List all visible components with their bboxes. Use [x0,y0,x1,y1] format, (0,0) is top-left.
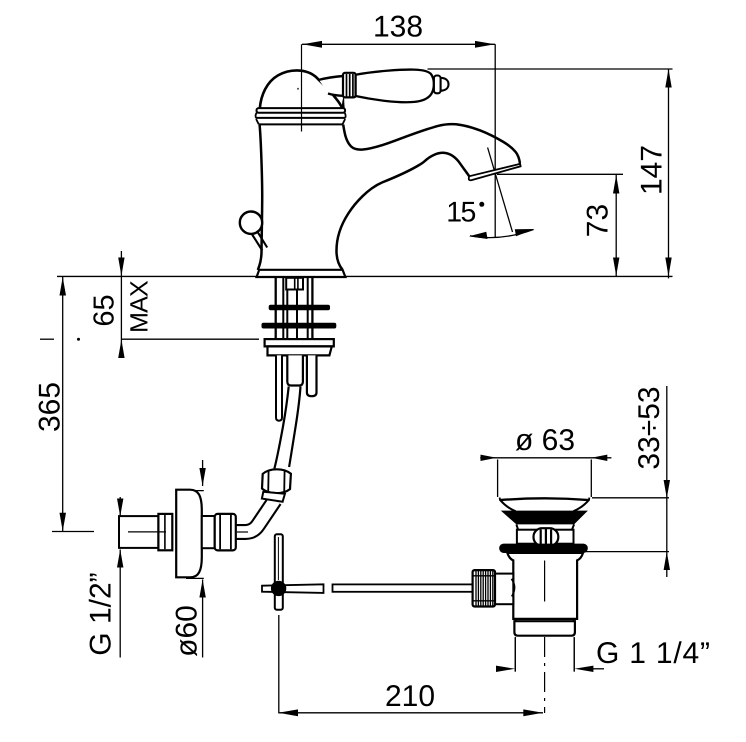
drain throat cylinder [517,530,574,544]
drain flange black band [499,544,588,553]
angle 15 degrees leader lines and arc [446,148,534,240]
hex fitting on pipe [262,469,291,493]
handle grip [356,70,434,103]
black wedge at dome-handle junction [342,97,345,108]
dimension 365 [34,277,95,532]
escutcheon hub cylinder [202,516,215,548]
base plinth [257,270,346,277]
svg-text:ø60: ø60 [171,605,204,657]
handle end ring [434,76,441,94]
dome skirt rings [256,108,346,124]
svg-text:ø 63: ø 63 [515,424,575,457]
svg-text:365: 365 [34,382,67,432]
pop-up knob [240,212,267,251]
washer 2 [262,323,337,329]
drain knurled knob [473,570,495,606]
dimension diameter 63 [480,424,611,497]
spout tip plate [469,163,521,181]
counter line [57,275,673,277]
dimension 138 [302,11,496,238]
hex fitting collar [262,492,285,502]
drain side port [495,574,515,605]
supply tube stub [287,355,303,385]
supply pipe upper bend [274,387,300,469]
spout upper curve [343,124,520,163]
linkage vertical rod [275,534,283,610]
svg-text:MAX: MAX [126,280,154,333]
linkage horizontal rod right piece [333,584,473,591]
nipple hex collar [158,514,172,550]
mounting flange [265,339,334,355]
linkage horizontal rod left piece [262,584,324,593]
dimension 73 [497,174,623,276]
dimension diameter 60 [171,460,206,658]
linkage ball joint [271,581,286,596]
svg-text:138: 138 [373,11,423,44]
wall escutcheon [176,490,202,578]
tailpiece extension lines [515,638,574,672]
svg-text:210: 210 [385,680,435,713]
wall nipple [119,516,158,548]
nipple thread centerline [128,531,248,533]
svg-text:15: 15 [446,197,475,229]
right tube below flange [307,355,317,396]
pop-up rod below flange [276,355,282,420]
drain body [507,553,583,619]
body trunk left edge [258,125,262,270]
body trunk right edge from spout armpit to base [336,165,420,270]
dimension G 1/2 inch [85,497,124,658]
drain tailpiece [514,619,575,636]
dimension 33-53 [584,386,670,577]
dimension G 1 1/4 inch [496,637,711,672]
faucet dome cap [260,71,344,109]
dimension 210 [278,615,543,716]
dimension 65 [89,251,125,358]
drain body dashed centerline [544,561,546,602]
drain plug cap [500,498,590,512]
threaded shank vertical lines [276,278,313,340]
svg-text:73: 73 [582,204,615,237]
handle rib block [343,73,356,98]
svg-text:147: 147 [636,145,669,195]
wall hex nut [215,514,236,551]
svg-text:65: 65 [89,294,121,326]
handle bullet tip [441,78,449,91]
drain cone black band [501,511,588,530]
shank nut [286,278,303,290]
dimension 147 [428,69,673,279]
spout inner curve [420,153,470,177]
washer 1 [269,305,330,311]
supply pipe lower bend to wall [233,500,275,532]
svg-text:G 1/2”: G 1/2” [85,572,118,655]
drain lower dashed centerline [544,637,546,713]
svg-text:G 1 1/4”: G 1 1/4” [596,637,711,670]
svg-text:33÷53: 33÷53 [633,386,666,469]
MAX label and max line [40,280,259,341]
drain cage barrel [534,528,559,546]
